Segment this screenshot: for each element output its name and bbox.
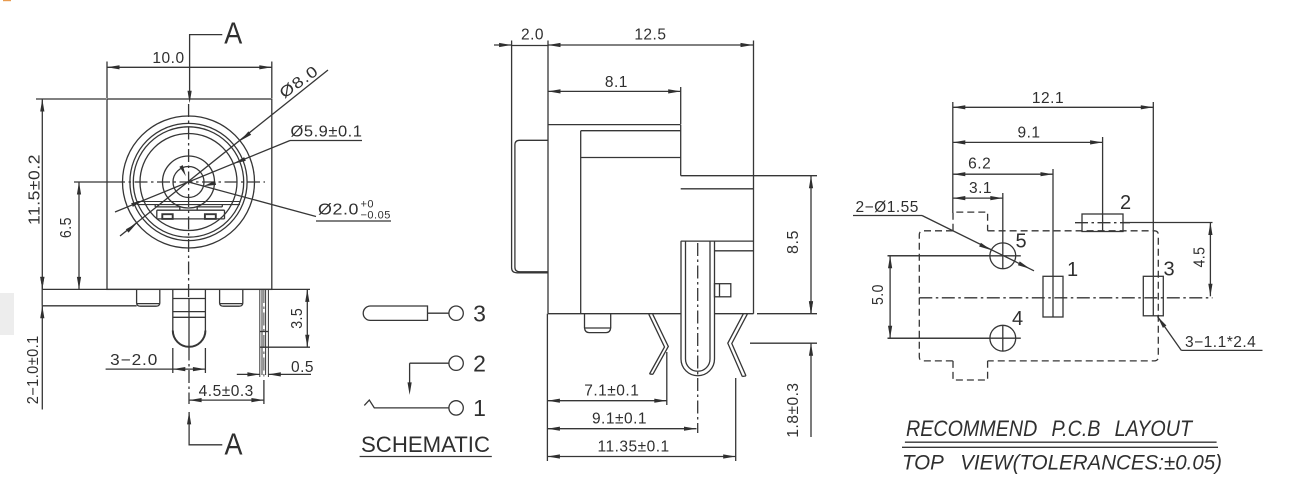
- pcb layout: main centerline: [919, 297, 1212, 299]
- front view: leader line Ø2.0: [189, 182, 317, 217]
- pcb layout: pad 3: [1143, 276, 1163, 316]
- front view: center boss circle: [163, 156, 215, 208]
- svg-text:5.0: 5.0: [870, 284, 887, 305]
- pcb layout: hole 5 (Ø1.55): [990, 243, 1016, 269]
- side view: body outline: [548, 124, 681, 126]
- pcb layout: pad 2: [1082, 214, 1123, 232]
- front view: bezel rim circle: [130, 123, 247, 240]
- svg-text:A: A: [225, 427, 243, 462]
- svg-text:3.5: 3.5: [289, 308, 306, 329]
- side view: dimension 1.8±0.3: [750, 342, 817, 344]
- front view: horizontal centerline: [112, 181, 265, 183]
- pcb layout: pad 1: [1043, 276, 1063, 317]
- svg-text:2: 2: [1120, 192, 1131, 214]
- svg-text:11.5±0.2: 11.5±0.2: [27, 154, 44, 225]
- svg-text:2: 2: [473, 351, 486, 377]
- svg-text:3: 3: [473, 301, 486, 327]
- side view: center pin capsule: [680, 241, 682, 359]
- schematic: pin 1 spring contact: [364, 400, 449, 408]
- pcb layout: dashed notch bottom-left: [953, 361, 988, 380]
- side view: dimension 9.1±0.1: [547, 428, 696, 430]
- side view: dimension 8.5: [754, 175, 818, 177]
- svg-text:3−1.1*2.4: 3−1.1*2.4: [1185, 334, 1256, 351]
- svg-text:4.5: 4.5: [1192, 247, 1209, 268]
- front view: section A-A marker top: [190, 35, 223, 92]
- front view: side pin (0.5 thick): [259, 289, 261, 377]
- svg-text:4.5±0.3: 4.5±0.3: [199, 383, 254, 400]
- pcb layout: hole 4 (Ø1.55): [990, 325, 1016, 351]
- svg-text:1: 1: [473, 395, 486, 421]
- front view: leader line Ø5.9: [115, 141, 290, 213]
- schematic: terminal circle 3: [449, 306, 463, 320]
- svg-text:10.0: 10.0: [152, 50, 184, 67]
- svg-text:2−1.0±0.1: 2−1.0±0.1: [25, 335, 42, 404]
- front view: dimension 3-2.0: [172, 348, 174, 373]
- front view: base plate: [42, 288, 272, 290]
- side view: dimension 2.0: [511, 41, 513, 47]
- front view: dimension 4.5±0.3: [263, 380, 265, 404]
- side view: bent leg left (pin contact lead): [649, 314, 669, 374]
- svg-text:3−2.0: 3−2.0: [110, 352, 158, 369]
- side view: flange inner step line: [515, 140, 548, 271]
- svg-text:12.5: 12.5: [634, 27, 666, 44]
- side view: pin centerline: [697, 243, 699, 433]
- front view: vertical centerline: [188, 104, 190, 298]
- svg-text:12.1: 12.1: [1032, 90, 1064, 107]
- schematic: wire pin3: [428, 312, 449, 314]
- pcb layout: leader 3-1.1*2.4: [1158, 317, 1182, 351]
- svg-text:1.8±0.3: 1.8±0.3: [785, 382, 802, 437]
- svg-text:0.5: 0.5: [291, 359, 314, 376]
- front view: dimension 2-1.0±0.1: [41, 306, 43, 410]
- side view: contact bump: [715, 284, 731, 297]
- front view: contact foot left: [162, 214, 172, 219]
- schematic: pin 3 barrel symbol: [363, 306, 427, 320]
- front view: center pin seam line: [188, 299, 190, 347]
- svg-text:3: 3: [1163, 259, 1174, 281]
- svg-text:Ø5.9±0.1: Ø5.9±0.1: [291, 124, 363, 141]
- front view: center pin rounded bottom: [173, 331, 206, 347]
- front view: bezel rim inner circle: [133, 127, 243, 237]
- pcb layout: dimension 6.2: [953, 173, 1053, 175]
- svg-text:−0.05: −0.05: [361, 210, 391, 222]
- side view: body inner wall: [580, 131, 582, 314]
- svg-text:8.5: 8.5: [785, 230, 802, 254]
- front view: dimension 0.5: [237, 373, 260, 375]
- svg-text:2.0: 2.0: [521, 27, 544, 44]
- side view: bent leg right (shield lead): [728, 314, 748, 377]
- side view: shield tab lower line: [681, 188, 754, 190]
- pcb layout: dashed body outline: [919, 231, 953, 361]
- pcb layout: dimension 4.5: [1123, 222, 1213, 224]
- svg-text:6.5: 6.5: [58, 217, 75, 238]
- side view: front flange outline: [512, 46, 548, 273]
- svg-text:8.1: 8.1: [605, 74, 628, 91]
- svg-text:Ø2.0: Ø2.0: [318, 202, 359, 219]
- pcb layout: dimension 3.1: [953, 197, 1003, 199]
- front view: contact terminal chord lines: [138, 201, 240, 203]
- svg-text:3.1: 3.1: [969, 180, 992, 197]
- svg-text:A: A: [224, 16, 242, 51]
- front view: dimension 6.5: [74, 181, 112, 183]
- svg-text:2−Ø1.55: 2−Ø1.55: [856, 199, 919, 216]
- side view: plastic post under body: [584, 314, 586, 328]
- side view: dimension 12.5: [753, 41, 755, 176]
- schematic: terminal circle 2: [449, 356, 463, 370]
- svg-text:6.2: 6.2: [968, 156, 991, 173]
- front view: mount tab left: [136, 289, 138, 303]
- svg-text:4: 4: [1012, 308, 1023, 330]
- svg-text:7.1±0.1: 7.1±0.1: [584, 383, 639, 400]
- front view: contact foot right: [205, 214, 216, 219]
- svg-text:TOP VIEW(TOLERANCES:±0.05): TOP VIEW(TOLERANCES:±0.05): [902, 451, 1222, 475]
- pcb layout: dimension 5.0: [888, 255, 990, 257]
- side view: pin block top line: [681, 240, 754, 242]
- front view: connector body square outline: [107, 99, 272, 289]
- schematic: terminal circle 1: [449, 401, 463, 415]
- svg-text:9.1: 9.1: [1017, 125, 1040, 142]
- front view: section A-A marker bottom: [189, 412, 222, 445]
- svg-text:RECOMMEND P.C.B LAYOUT: RECOMMEND P.C.B LAYOUT: [906, 416, 1194, 441]
- pcb layout: dimension 12.1: [952, 102, 954, 213]
- svg-text:9.1±0.1: 9.1±0.1: [592, 411, 647, 428]
- svg-text:5: 5: [1015, 231, 1026, 253]
- front view: center pin circle Ø2.0: [173, 167, 204, 198]
- front view: dimension 3.5: [272, 288, 310, 290]
- pcb layout: dimension 9.1: [953, 141, 1103, 143]
- side view: dimension 11.35±0.1: [735, 378, 737, 461]
- side view: dimension 8.1: [680, 87, 682, 124]
- front view: opening circle Ø5.9: [140, 134, 237, 231]
- front view: dimension 10.0: [106, 62, 108, 99]
- front view: mount tab right: [219, 289, 221, 303]
- front view: outer bezel circle Ø8.0: [123, 116, 255, 248]
- side view: dimension 7.1±0.1: [546, 314, 548, 461]
- svg-text:1: 1: [1067, 259, 1078, 281]
- svg-text:SCHEMATIC: SCHEMATIC: [361, 432, 490, 457]
- side view: flange back edge: [547, 46, 549, 314]
- schematic: wire pin2 with switch arrow: [410, 362, 449, 364]
- front view: center pin terminal: [172, 289, 174, 330]
- front view: leader line Ø8.0: [120, 70, 328, 236]
- svg-text:11.35±0.1: 11.35±0.1: [597, 439, 669, 456]
- front view: contact terminal body: [154, 204, 156, 207]
- pcb layout: dashed notch top-left: [953, 212, 988, 231]
- front view: dimension 11.5±0.2: [36, 98, 106, 100]
